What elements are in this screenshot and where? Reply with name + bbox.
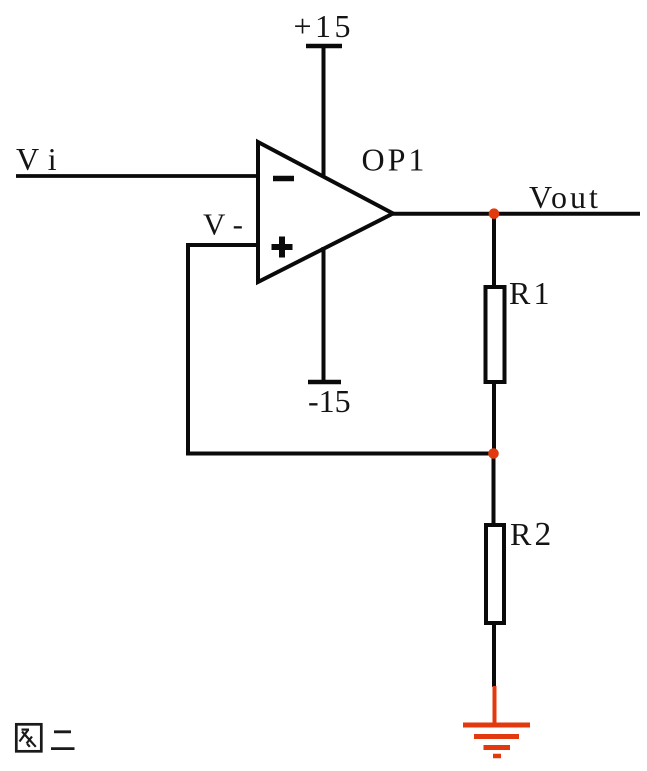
wire feedback horizontal bottom	[186, 452, 493, 456]
power +15 terminal bar	[306, 44, 342, 49]
power -15 terminal bar	[308, 380, 341, 385]
svg-text:Vout: Vout	[529, 179, 601, 215]
caption 图二 (Figure 2) drawn glyphs	[16, 724, 74, 751]
wire Vi input	[16, 174, 260, 178]
wire feedback vertical left	[186, 243, 190, 456]
wire op-amp output to Vout	[393, 212, 640, 216]
图 inner strokes	[22, 728, 30, 730]
op-amp non-inverting input plus sign	[272, 237, 293, 258]
svg-text:V -: V -	[203, 207, 243, 242]
二 strokes	[54, 730, 71, 733]
svg-text:-15: -15	[308, 383, 351, 419]
图 outer box	[16, 724, 41, 751]
wire to ground (red segment)	[493, 686, 497, 724]
ground symbol	[463, 725, 530, 756]
junction feedback node	[488, 448, 499, 459]
svg-text:1: 1	[534, 275, 550, 311]
wire R2 to ground (black segment)	[492, 625, 496, 687]
op-amp U1 (OP1) body	[258, 142, 393, 282]
svg-text:R: R	[509, 275, 531, 311]
wire +15 supply to op-amp	[322, 46, 326, 178]
resistor R2 body	[486, 525, 504, 623]
svg-text:2: 2	[535, 516, 552, 553]
wire -15 supply from op-amp	[322, 247, 326, 382]
wire R1 to feedback node	[492, 384, 496, 453]
svg-text:R: R	[510, 516, 532, 552]
wire feedback node to R2	[492, 454, 496, 523]
resistor R1 body	[486, 287, 505, 382]
wire junction to R1	[492, 214, 496, 287]
svg-text:+15: +15	[294, 8, 355, 44]
op-amp inverting input minus sign	[273, 176, 294, 182]
wire feedback to non-inverting input	[186, 243, 260, 247]
svg-text:Vi: Vi	[16, 141, 67, 177]
junction output node	[489, 208, 500, 219]
svg-text:OP1: OP1	[362, 142, 428, 178]
